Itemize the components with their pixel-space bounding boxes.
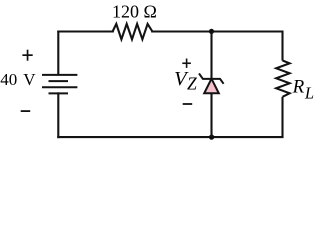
label + (zener) (182, 59, 191, 68)
wire bottom run (58, 136, 282, 138)
wire top-left segment (58, 30, 113, 32)
zener diode D1 cathode bar (199, 73, 224, 83)
wire top-right segment (152, 30, 282, 32)
svg-text:R: R (292, 77, 305, 98)
svg-text:40: 40 (0, 70, 17, 89)
junction node bottom (209, 134, 214, 139)
label − (battery) (21, 110, 31, 112)
wire right lower segment (281, 97, 283, 137)
svg-text:V: V (23, 70, 36, 89)
junction node top (209, 29, 214, 34)
label 40 V (0, 70, 36, 89)
wire left upper segment (57, 31, 59, 75)
svg-text:Z: Z (187, 74, 197, 94)
label 120 Ω (112, 2, 157, 22)
svg-text:120 Ω: 120 Ω (112, 2, 157, 22)
resistor R1 zigzag (113, 24, 153, 39)
wire right upper segment (281, 32, 283, 61)
label + (battery) (22, 50, 32, 61)
zener diode D1 triangle (204, 79, 219, 94)
label VZ (174, 68, 197, 94)
wire left lower segment (57, 93, 59, 137)
label RL (292, 77, 314, 103)
wire zener branch upper (210, 31, 212, 79)
label − (zener) (183, 103, 193, 105)
wire zener branch lower (210, 93, 212, 137)
svg-text:L: L (304, 84, 314, 103)
resistor RL zigzag (276, 61, 289, 97)
battery VS plates (42, 75, 77, 94)
